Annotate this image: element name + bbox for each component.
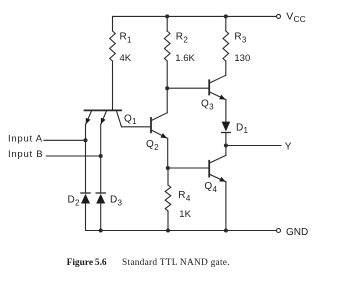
svg-text:D2: D2: [68, 195, 81, 208]
wire D2 anode to ground rail: [86, 203, 277, 230]
svg-text:Figure5.6Standard TTL NAND gat: Figure5.6Standard TTL NAND gate.: [67, 258, 230, 268]
resistor R4: [165, 168, 171, 231]
svg-text:VCC: VCC: [286, 11, 305, 25]
wire input A: [44, 139, 86, 141]
transistor Q2: [151, 113, 167, 138]
svg-text:Q4: Q4: [204, 181, 217, 194]
svg-text:4K: 4K: [120, 53, 132, 64]
junction input A: [84, 138, 88, 142]
svg-text:Q3: Q3: [201, 99, 214, 112]
terminal GND: [277, 229, 281, 233]
wire input B: [46, 155, 100, 157]
svg-text:R3: R3: [234, 32, 247, 45]
svg-text:D3: D3: [110, 195, 123, 208]
svg-text:D1: D1: [236, 122, 249, 135]
wire Q1 emitter2 to input B / D3: [100, 124, 102, 193]
junction Q2 emitter / R4 / Q4 base: [166, 166, 170, 170]
diode D3: [96, 193, 105, 204]
junction rail-R2: [165, 14, 169, 18]
svg-text:R4: R4: [178, 190, 191, 203]
svg-text:1.6K: 1.6K: [175, 53, 195, 64]
svg-text:R2: R2: [176, 32, 189, 45]
wire D3 anode to ground rail: [100, 203, 102, 230]
resistor R1: [110, 16, 116, 70]
wire Q3 base: [167, 87, 209, 89]
wire Q4 base: [168, 167, 209, 169]
svg-text:GND: GND: [286, 227, 308, 238]
transistor Q3: [209, 75, 226, 99]
terminal VCC: [277, 14, 281, 18]
transistor Q1: [85, 110, 122, 126]
junction rail-R4: [166, 229, 170, 233]
wire Q1 collector to Q2 base: [122, 126, 152, 128]
wire Q4 emitter: [225, 182, 227, 231]
svg-text:130: 130: [234, 53, 250, 64]
svg-text:Q1: Q1: [124, 113, 137, 126]
wire Q2 emitter down: [167, 138, 169, 168]
resistor R2: [164, 16, 170, 88]
resistor R3: [223, 16, 229, 75]
transistor Q4: [209, 155, 226, 181]
wire D1 to Y junction: [225, 133, 227, 146]
junction input B: [99, 154, 103, 158]
diode D1: [222, 122, 231, 133]
svg-text:1K: 1K: [179, 209, 191, 220]
svg-text:R1: R1: [120, 32, 133, 45]
junction rail-R3: [224, 14, 228, 18]
svg-text:Q2: Q2: [146, 139, 159, 152]
wire VCC rail: [113, 15, 277, 17]
wire Q1 emitter1 to input A / D2: [85, 124, 87, 193]
wire Q3 emitter to D1: [225, 100, 227, 122]
wire R1 to Q1 base: [112, 70, 114, 110]
wire output Y: [226, 145, 281, 147]
junction output node: [224, 144, 228, 148]
junction R2 / Q2 collector / Q3 base: [165, 86, 169, 90]
wire Q4 collector: [225, 146, 227, 156]
junction rail-D3: [99, 229, 103, 233]
diode D2: [81, 193, 90, 204]
wire Q2 collector to R2: [166, 88, 168, 113]
svg-text:Input B: Input B: [8, 149, 43, 160]
junction rail-Q4 emitter: [224, 229, 228, 233]
svg-text:Y: Y: [285, 142, 292, 153]
svg-text:Input A: Input A: [8, 134, 43, 145]
